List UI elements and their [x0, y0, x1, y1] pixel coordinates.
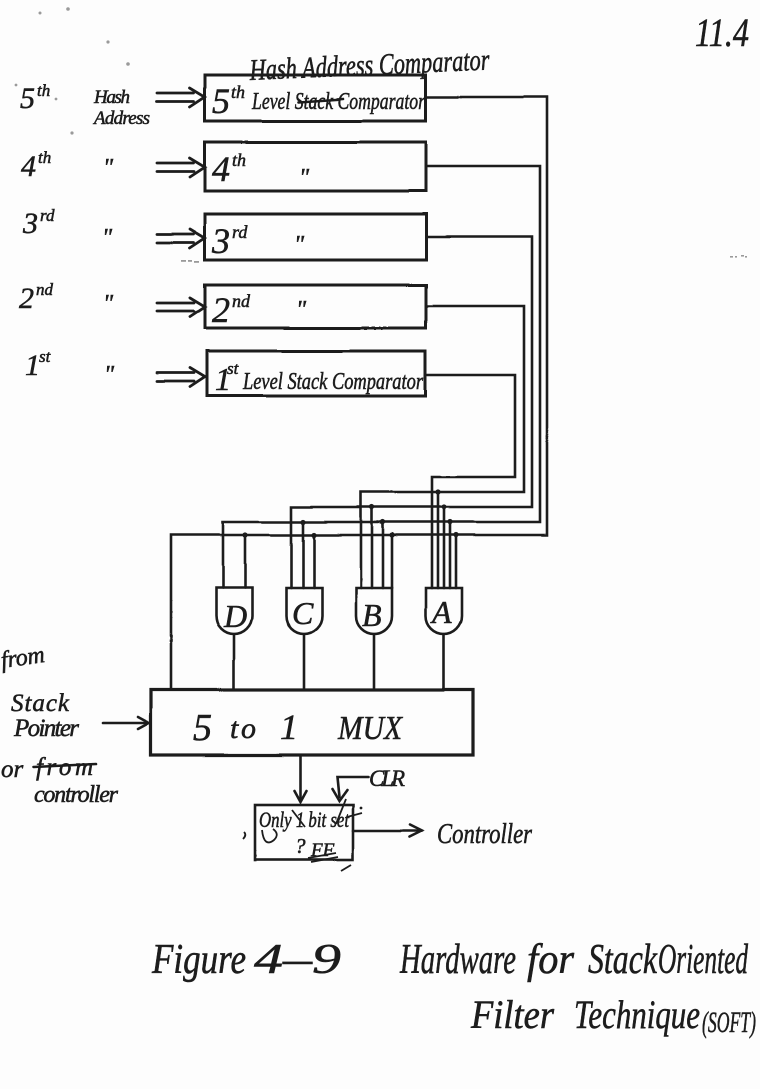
svg-text:": "	[103, 155, 114, 181]
svg-text:th: th	[37, 81, 50, 100]
svg-text:Level Stack Comparator: Level Stack Comparator	[242, 369, 423, 395]
svg-text:th: th	[231, 82, 245, 102]
svg-text:11.4: 11.4	[695, 10, 749, 55]
svg-text:1: 1	[280, 707, 298, 747]
svg-text:1: 1	[25, 349, 40, 382]
svg-text:th: th	[38, 148, 51, 167]
svg-text:Figure: Figure	[151, 937, 246, 983]
svg-text:": "	[103, 291, 114, 317]
svg-text:4–9: 4–9	[254, 937, 341, 983]
svg-text:CLR: CLR	[369, 766, 405, 791]
svg-text:": "	[299, 165, 310, 191]
svg-text:or: or	[1, 756, 24, 783]
svg-text:rd: rd	[232, 222, 248, 242]
svg-text:C: C	[292, 595, 314, 631]
svg-text:5: 5	[193, 707, 212, 749]
svg-text:to: to	[230, 712, 256, 745]
svg-text:3: 3	[211, 221, 230, 261]
svg-text:4: 4	[212, 149, 230, 189]
svg-text:5: 5	[212, 81, 230, 121]
svg-text:2: 2	[19, 282, 34, 315]
svg-text:Hash Address Comparator: Hash Address Comparator	[248, 44, 490, 87]
svg-text:Only 1 bit set: Only 1 bit set	[259, 807, 350, 832]
svg-text:?: ?	[295, 834, 306, 858]
svg-text:Stack: Stack	[588, 937, 658, 983]
svg-text:Address: Address	[92, 108, 150, 129]
svg-text:Hash: Hash	[93, 87, 130, 108]
svg-text:D: D	[223, 598, 247, 634]
svg-text:st: st	[227, 359, 240, 378]
svg-text:nd: nd	[36, 280, 54, 299]
svg-text:Controller: Controller	[437, 818, 533, 850]
svg-text:rd: rd	[40, 206, 55, 225]
svg-text:controller: controller	[34, 782, 119, 808]
svg-text:4: 4	[21, 150, 36, 183]
svg-text:Stack: Stack	[11, 690, 70, 717]
svg-text:Level Stack Comparator: Level Stack Comparator	[251, 89, 425, 115]
svg-text:from: from	[0, 642, 46, 674]
svg-text:th: th	[232, 150, 246, 170]
svg-text:": "	[102, 225, 113, 251]
svg-text:Technique: Technique	[574, 992, 700, 1037]
svg-text:nd: nd	[232, 291, 251, 311]
svg-text:MUX: MUX	[337, 710, 403, 747]
svg-text:3: 3	[22, 207, 38, 240]
svg-text:B: B	[362, 597, 382, 633]
svg-text:A: A	[430, 594, 452, 630]
svg-text:st: st	[39, 347, 52, 366]
svg-text:": "	[104, 362, 115, 388]
svg-text:Filter: Filter	[470, 992, 554, 1037]
svg-text:": "	[296, 297, 307, 323]
svg-text:Pointer: Pointer	[13, 715, 79, 742]
svg-text:5: 5	[20, 82, 35, 115]
svg-text:Oriented: Oriented	[658, 937, 749, 983]
svg-text:": "	[294, 232, 305, 258]
svg-text:Hardware: Hardware	[399, 937, 516, 983]
svg-text:2: 2	[212, 290, 230, 330]
svg-text:(SOFT): (SOFT)	[702, 1006, 756, 1039]
svg-text:for: for	[527, 937, 575, 983]
